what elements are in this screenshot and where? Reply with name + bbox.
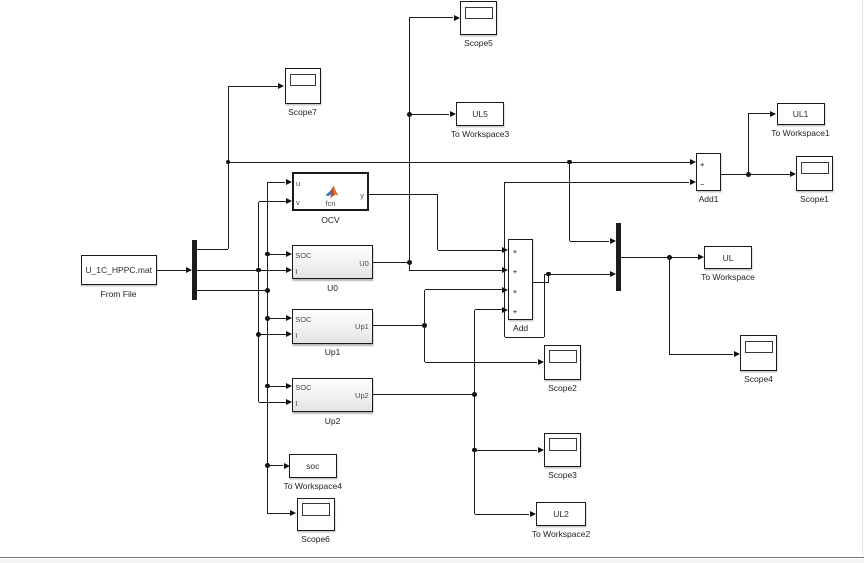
demux bar <box>192 240 197 300</box>
wire SOC bus to soc To Workspace4 <box>267 465 283 466</box>
wire From File to Demux <box>157 270 186 271</box>
junction Up2 output branch <box>472 392 477 397</box>
wire SOC bus to Up2 input SOC <box>267 386 286 387</box>
junction demux-out1 / UL-line <box>226 160 231 165</box>
junction Add1 output to UL1 <box>746 172 751 177</box>
label U0 <box>327 283 338 293</box>
wire branch to Scope4 <box>669 257 670 354</box>
label To Workspace1 <box>771 128 829 138</box>
label Scope6 <box>301 534 330 544</box>
subsystem block Up1 <box>292 309 373 344</box>
label Scope4 <box>744 374 773 384</box>
label To Workspace4 <box>284 481 342 491</box>
junction SOC bus to Up1 <box>265 316 270 321</box>
wire branch up to UL1 <box>748 114 749 175</box>
wire Up2 to Add input 4 <box>474 310 475 394</box>
wire Demux out2 (I) to U0 input I <box>197 270 286 271</box>
label Up2 <box>325 416 341 426</box>
scope block Scope4 <box>740 335 777 371</box>
label Scope3 <box>548 470 577 480</box>
canvas bottom border <box>0 557 864 559</box>
riser to Scope5 <box>409 18 410 263</box>
wire SOC bus to U0 input SOC <box>267 254 286 255</box>
label From File <box>101 289 137 299</box>
label To Workspace3 <box>451 129 509 139</box>
junction Up2 branch to Scope3 <box>472 448 477 453</box>
wire Add output loop to Add1 minus input <box>544 274 545 337</box>
wire I bus to Up2 input I <box>259 402 286 403</box>
junction U0 output / Scope5-UL5 riser <box>407 260 412 265</box>
junction UL-line to Mux branch <box>567 160 572 165</box>
junction I-bus <box>256 268 261 273</box>
junction SOC bus to U0 <box>265 252 270 257</box>
wire U0 output <box>373 262 410 263</box>
wire Up2 output <box>373 394 475 395</box>
junction SOC bus to To Workspace4 <box>265 463 270 468</box>
sum block Add <box>508 239 533 320</box>
SOC bus vertical <box>267 182 268 514</box>
wire OCV output y to Add input 1 <box>369 194 438 195</box>
junction riser to UL5 <box>407 112 412 117</box>
wire Up2 branch down <box>474 394 475 514</box>
label Add <box>513 323 528 333</box>
subsystem block U0 <box>292 245 373 279</box>
wire Up1 output <box>373 325 425 326</box>
junction SOC bus to Up2 <box>265 384 270 389</box>
from-file block U_1C_HPPC.mat <box>81 255 158 285</box>
wire U0 output to Add input 2 <box>409 262 410 270</box>
wire Up1 to Add input 3 <box>424 290 425 326</box>
wire Demux out1 to Scope7 <box>197 249 228 250</box>
label Scope1 <box>800 194 829 204</box>
wire Mux output to UL To Workspace <box>621 257 698 258</box>
sum block Add1 <box>696 153 721 191</box>
wire to UL2 To Workspace2 <box>475 514 530 515</box>
label Up1 <box>325 347 341 357</box>
to-workspace block To Workspace1 <box>777 103 825 126</box>
wire Demux out3 (SOC) to SOC bus <box>197 290 267 291</box>
label Scope7 <box>288 107 317 117</box>
scope block Scope5 <box>460 1 497 35</box>
wire Add output <box>533 282 549 283</box>
MATLAB function block OCV <box>292 172 369 211</box>
label OCV <box>321 215 339 225</box>
junction I bus to Up1 <box>256 332 261 337</box>
wire to Scope3 <box>475 450 538 451</box>
scope block Scope3 <box>544 433 581 468</box>
wire riser to UL5 <box>409 114 449 115</box>
junction Up1 output branch <box>422 323 427 328</box>
wire Add1 output to Scope1 <box>721 174 790 175</box>
wire I bus to Up1 input I <box>259 334 286 335</box>
mux bar <box>616 223 621 291</box>
scope block Scope7 <box>285 68 321 104</box>
wire SOC bus to OCV input u <box>267 182 285 183</box>
to-workspace block To Workspace3 <box>456 102 504 126</box>
scope block Scope2 <box>544 345 581 381</box>
canvas right border <box>862 0 863 556</box>
wire branch down to Mux input 1 <box>569 162 570 241</box>
subsystem block Up2 <box>292 378 373 412</box>
to-workspace block To Workspace2 <box>536 502 586 526</box>
wire SOC line to Add1 plus input <box>228 162 690 163</box>
scope block Scope6 <box>297 498 335 532</box>
label Scope2 <box>548 383 577 393</box>
label To Workspace2 <box>532 529 590 539</box>
junction Mux output to Scope4 <box>667 255 672 260</box>
to-workspace block To Workspace <box>704 246 752 269</box>
label To Workspace <box>701 272 755 282</box>
wire Add output to Mux input 2 <box>545 274 610 275</box>
wire Up1 branch to Scope2 <box>424 326 425 363</box>
wire I bus to OCV input v <box>259 201 286 202</box>
to-workspace block To Workspace4 <box>289 454 338 478</box>
scope block Scope1 <box>796 156 833 191</box>
junction Add output branch <box>546 272 551 277</box>
wire SOC bus to Up1 input SOC <box>267 318 286 319</box>
I bus vertical <box>258 202 259 403</box>
wire SOC bus to Scope6 <box>267 513 290 514</box>
junction SOC bus at demux feed <box>265 288 270 293</box>
label Add1 <box>699 194 719 204</box>
label Scope5 <box>464 38 493 48</box>
